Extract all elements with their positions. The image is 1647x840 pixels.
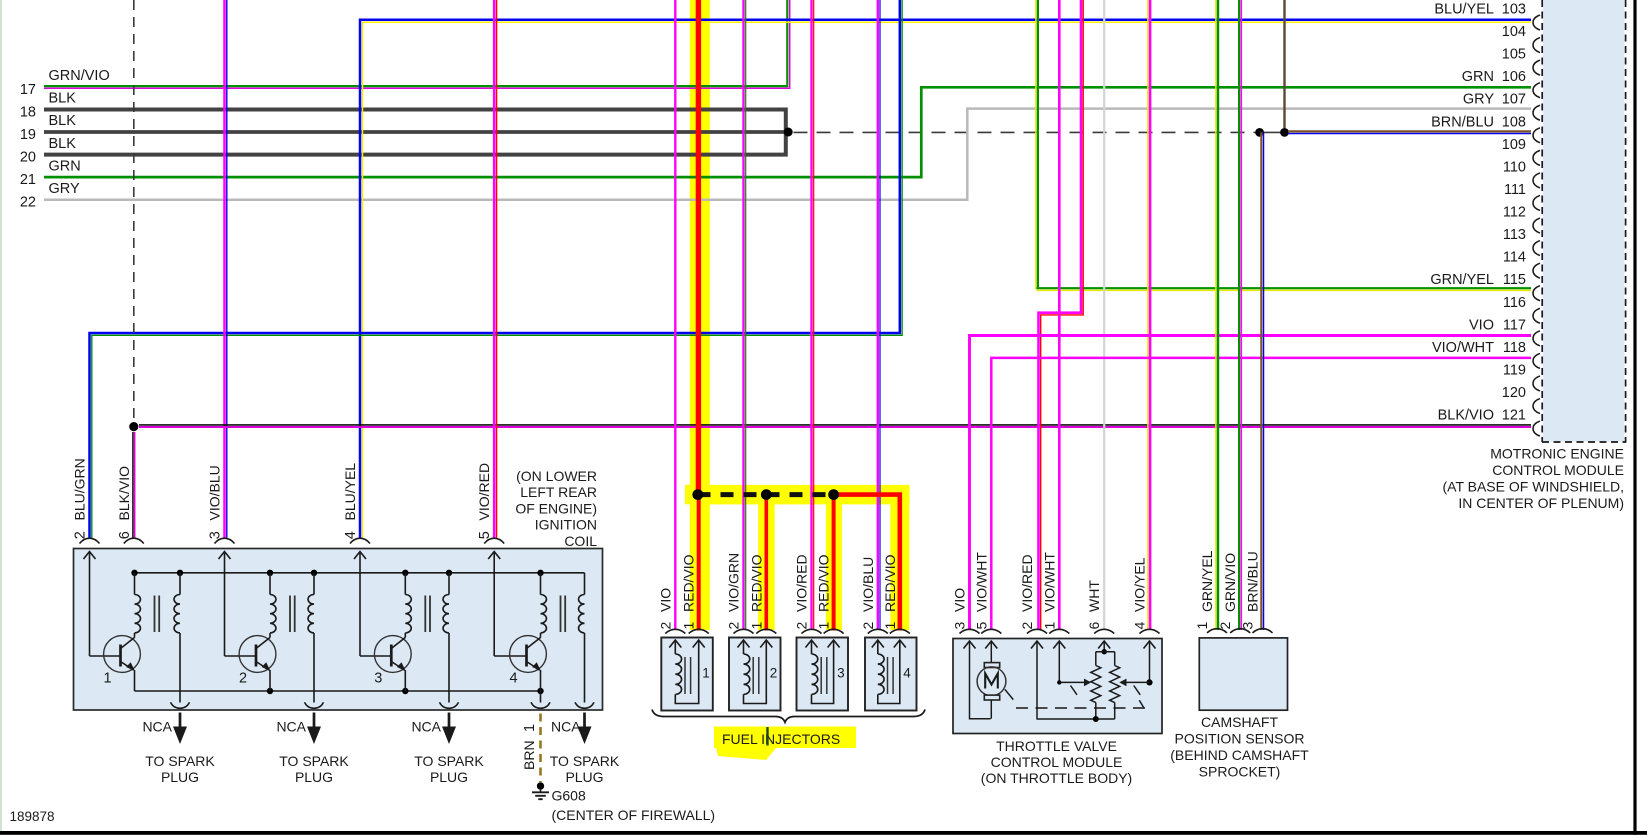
svg-text:WHT: WHT	[1086, 580, 1102, 612]
svg-text:3: 3	[1240, 622, 1256, 630]
svg-text:4: 4	[343, 531, 359, 539]
svg-text:106: 106	[1502, 69, 1526, 85]
svg-text:3: 3	[374, 671, 382, 687]
svg-text:105: 105	[1502, 47, 1526, 63]
svg-text:VIO/RED: VIO/RED	[794, 554, 810, 612]
svg-text:22: 22	[20, 195, 36, 211]
svg-text:1: 1	[1194, 622, 1210, 630]
svg-text:FUEL INJECTORS: FUEL INJECTORS	[722, 731, 840, 747]
svg-text:TO SPARK: TO SPARK	[550, 753, 620, 769]
svg-text:VIO/BLU: VIO/BLU	[860, 557, 876, 612]
svg-text:1: 1	[882, 622, 898, 630]
svg-text:2: 2	[726, 622, 742, 630]
svg-text:G608: G608	[552, 788, 586, 804]
svg-text:BLK: BLK	[49, 113, 77, 129]
svg-text:116: 116	[1503, 295, 1526, 311]
svg-text:3: 3	[952, 622, 968, 630]
svg-text:VIO: VIO	[1469, 317, 1494, 333]
svg-text:LEFT REAR: LEFT REAR	[520, 484, 597, 500]
svg-text:TO SPARK: TO SPARK	[279, 753, 349, 769]
svg-text:1: 1	[1041, 622, 1057, 630]
svg-text:VIO/WHT: VIO/WHT	[1432, 340, 1494, 356]
svg-text:RED/VIO: RED/VIO	[882, 554, 898, 612]
svg-text:1: 1	[681, 622, 697, 630]
svg-text:17: 17	[20, 82, 36, 98]
svg-text:112: 112	[1503, 205, 1526, 221]
svg-text:2: 2	[1217, 622, 1233, 630]
svg-text:1: 1	[748, 622, 764, 630]
svg-text:5: 5	[477, 531, 493, 539]
svg-text:GRY: GRY	[49, 181, 80, 197]
svg-text:110: 110	[1503, 159, 1526, 175]
svg-text:20: 20	[20, 150, 36, 166]
svg-text:TO SPARK: TO SPARK	[414, 753, 484, 769]
svg-text:120: 120	[1502, 385, 1526, 401]
svg-text:BLK/VIO: BLK/VIO	[1438, 408, 1494, 424]
svg-text:BLK/VIO: BLK/VIO	[116, 466, 132, 521]
svg-text:CONTROL MODULE: CONTROL MODULE	[991, 754, 1123, 770]
svg-text:OF ENGINE): OF ENGINE)	[515, 500, 597, 516]
svg-text:IN CENTER OF PLENUM): IN CENTER OF PLENUM)	[1458, 495, 1624, 511]
svg-text:1: 1	[522, 724, 538, 732]
svg-text:(AT BASE OF WINDSHIELD,: (AT BASE OF WINDSHIELD,	[1442, 479, 1624, 495]
svg-text:BLK: BLK	[49, 91, 77, 107]
svg-text:2: 2	[239, 671, 247, 687]
svg-text:109: 109	[1502, 137, 1526, 153]
svg-text:189878: 189878	[10, 809, 55, 824]
svg-text:113: 113	[1503, 227, 1526, 243]
svg-text:BLU/YEL: BLU/YEL	[1434, 2, 1494, 18]
svg-text:VIO: VIO	[952, 588, 968, 612]
svg-text:VIO/YEL: VIO/YEL	[1132, 557, 1148, 612]
svg-text:THROTTLE VALVE: THROTTLE VALVE	[996, 738, 1117, 754]
svg-text:(ON THROTTLE BODY): (ON THROTTLE BODY)	[981, 770, 1132, 786]
svg-text:2: 2	[794, 622, 810, 630]
svg-text:CAMSHAFT: CAMSHAFT	[1201, 714, 1278, 730]
svg-text:121: 121	[1502, 408, 1526, 424]
svg-text:VIO: VIO	[657, 588, 673, 612]
svg-text:2: 2	[860, 622, 876, 630]
svg-text:IGNITION: IGNITION	[535, 517, 597, 533]
svg-text:1: 1	[702, 666, 710, 681]
svg-text:NCA: NCA	[411, 719, 441, 735]
svg-text:BRN/BLU: BRN/BLU	[1245, 551, 1261, 612]
svg-text:118: 118	[1503, 340, 1526, 356]
svg-text:3: 3	[837, 666, 845, 681]
svg-text:BLK: BLK	[49, 136, 77, 152]
svg-text:PLUG: PLUG	[565, 769, 603, 785]
svg-text:TO SPARK: TO SPARK	[145, 753, 215, 769]
svg-text:5: 5	[973, 622, 989, 630]
svg-text:6: 6	[1086, 622, 1102, 630]
svg-text:4: 4	[1132, 622, 1148, 630]
svg-text:VIO/RED: VIO/RED	[476, 463, 492, 521]
svg-text:VIO/WHT: VIO/WHT	[973, 552, 989, 612]
svg-text:PLUG: PLUG	[161, 769, 199, 785]
svg-text:GRY: GRY	[1463, 92, 1494, 108]
svg-text:(ON LOWER: (ON LOWER	[516, 468, 597, 484]
svg-text:119: 119	[1503, 362, 1526, 378]
svg-text:18: 18	[20, 105, 36, 121]
svg-text:VIO/BLU: VIO/BLU	[207, 465, 223, 520]
svg-text:GRN: GRN	[49, 158, 81, 174]
svg-text:115: 115	[1503, 272, 1526, 288]
svg-text:19: 19	[20, 127, 36, 143]
svg-text:RED/VIO: RED/VIO	[681, 554, 697, 612]
svg-text:MOTRONIC ENGINE: MOTRONIC ENGINE	[1490, 446, 1624, 462]
svg-text:21: 21	[20, 172, 36, 188]
svg-text:NCA: NCA	[276, 719, 306, 735]
svg-text:BLU/YEL: BLU/YEL	[342, 463, 358, 521]
svg-text:2: 2	[770, 666, 778, 681]
svg-text:BRN/BLU: BRN/BLU	[1431, 114, 1494, 130]
svg-text:(CENTER OF FIREWALL): (CENTER OF FIREWALL)	[552, 807, 716, 823]
svg-text:VIO/RED: VIO/RED	[1019, 554, 1035, 612]
svg-text:107: 107	[1502, 92, 1526, 108]
svg-text:GRN/VIO: GRN/VIO	[49, 68, 110, 84]
svg-text:104: 104	[1502, 24, 1526, 40]
svg-text:NCA: NCA	[142, 719, 172, 735]
svg-text:1: 1	[816, 622, 832, 630]
svg-text:2: 2	[1019, 622, 1035, 630]
svg-text:117: 117	[1503, 317, 1526, 333]
svg-text:GRN/YEL: GRN/YEL	[1430, 272, 1494, 288]
svg-text:114: 114	[1503, 250, 1526, 266]
svg-text:POSITION SENSOR: POSITION SENSOR	[1175, 730, 1305, 746]
svg-text:RED/VIO: RED/VIO	[816, 554, 832, 612]
svg-text:4: 4	[510, 671, 518, 687]
svg-text:BRN: BRN	[521, 740, 537, 770]
svg-text:3: 3	[208, 531, 224, 539]
svg-text:PLUG: PLUG	[430, 769, 468, 785]
svg-text:RED/VIO: RED/VIO	[748, 554, 764, 612]
svg-text:111: 111	[1504, 182, 1526, 198]
svg-text:GRN: GRN	[1462, 69, 1494, 85]
svg-text:1: 1	[104, 671, 112, 687]
svg-text:CONTROL MODULE: CONTROL MODULE	[1492, 462, 1624, 478]
svg-text:4: 4	[903, 666, 911, 681]
svg-text:COIL: COIL	[564, 533, 597, 549]
svg-text:GRN/YEL: GRN/YEL	[1199, 550, 1215, 612]
svg-text:GRN/VIO: GRN/VIO	[1222, 553, 1238, 612]
svg-text:108: 108	[1502, 114, 1526, 130]
svg-text:NCA: NCA	[551, 719, 581, 735]
svg-text:2: 2	[657, 622, 673, 630]
svg-text:(BEHIND CAMSHAFT: (BEHIND CAMSHAFT	[1170, 747, 1309, 763]
svg-text:VIO/GRN: VIO/GRN	[726, 553, 742, 612]
svg-text:PLUG: PLUG	[295, 769, 333, 785]
svg-text:103: 103	[1502, 2, 1526, 18]
svg-text:BLU/GRN: BLU/GRN	[72, 458, 88, 520]
svg-text:2: 2	[73, 531, 89, 539]
svg-text:SPROCKET): SPROCKET)	[1199, 763, 1281, 779]
svg-text:VIO/WHT: VIO/WHT	[1041, 552, 1057, 612]
